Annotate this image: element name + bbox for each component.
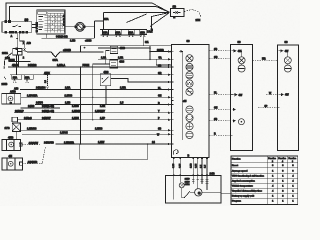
+15 tap: [171, 100, 173, 102]
wire +B3B: [42, 37, 95, 39]
wire stub 64.9: [156, 59, 171, 65]
fusible link 35A: [27, 52, 103, 57]
wire fuse4 down: [142, 35, 144, 46]
fuse F3: [128, 30, 134, 37]
connector 1B: [171, 9, 185, 17]
wire bus97: [21, 96, 172, 98]
vertical relay down: [105, 86, 107, 105]
hazard switch box 24B: [165, 176, 221, 203]
wires box30 down: [17, 33, 24, 49]
fuse bus: [100, 28, 147, 30]
wire bus67: [8, 66, 172, 68]
fuse F2: [115, 30, 121, 37]
fuse F4: [140, 30, 147, 37]
wire box30 to grid: [32, 25, 37, 28]
wire switch right: [84, 12, 169, 38]
dashed drop 1.5: [47, 75, 49, 87]
small box L3: [12, 117, 18, 121]
wire diagonal to bus: [127, 14, 147, 23]
indicator lamps group1: [186, 55, 193, 96]
fuse F1: [103, 30, 109, 37]
wire bus104: [35, 104, 172, 106]
inner feed wire: [182, 51, 184, 140]
bus mid labels: [36, 64, 126, 144]
fuse rail bottom: [101, 34, 142, 36]
lamp box LB2: [2, 139, 22, 150]
fork pins under fuses: [13, 79, 29, 82]
switch X: [23, 48, 27, 52]
wire y61: [9, 61, 31, 63]
fuse box L1: [12, 75, 22, 80]
wire dashed to 2M: [184, 10, 201, 18]
wire bus52: [150, 51, 172, 53]
wire bus112: [14, 112, 172, 114]
wire bus74: [10, 74, 172, 76]
wires below lamp unit: [173, 158, 208, 176]
wire bus59: [98, 58, 171, 60]
indicator lamps group2: [186, 106, 193, 138]
relay micro box R1: [110, 46, 118, 53]
dashed stub A to B mid: [258, 107, 277, 109]
pin ticks on lamp unit left edge: [171, 51, 173, 144]
bus end pin marks: [168, 51, 171, 146]
wire bus106: [21, 107, 60, 109]
wire battery down: [16, 55, 18, 75]
wire fan down: [150, 13, 170, 30]
bus wire labels near box: [157, 65, 162, 136]
wire to table: [221, 192, 231, 194]
wire +B bus: [81, 46, 172, 60]
wire dashed ARW: [22, 145, 45, 164]
lamp box LB3: [2, 158, 23, 170]
wire bus119: [18, 119, 172, 121]
function table: [231, 156, 298, 205]
wire R1R2 left link: [93, 51, 110, 65]
ignition switch: [75, 22, 85, 31]
wire bus130: [20, 129, 171, 131]
connector box 30: [2, 21, 32, 34]
wire bus134: [22, 133, 172, 135]
vertical bus x92: [92, 64, 94, 120]
front lamp unit A: [230, 44, 252, 150]
wire top outer: [6, 3, 170, 22]
battery 200A: [13, 48, 22, 55]
fuse box L2: [24, 75, 33, 80]
lamp box LB1: [2, 94, 21, 105]
dashed stub B bottom: [266, 94, 277, 96]
wire top inner: [10, 7, 170, 22]
relay micro box R2: [110, 60, 118, 68]
hook switch inside box bottom: [173, 150, 178, 155]
wire battery to ground: [4, 53, 12, 68]
wire dashed ABWS: [22, 163, 41, 165]
wire bus144: [56, 143, 172, 145]
relay K1: [100, 74, 111, 86]
X box 17B: [12, 123, 20, 131]
wire grid to switch: [65, 26, 76, 28]
wire loop under 144: [80, 144, 148, 159]
vertical bus x80: [80, 67, 82, 144]
wire relay out: [111, 79, 171, 82]
front lamp unit B: [277, 45, 298, 151]
wire bus89: [20, 89, 172, 91]
dashed stub A to B top: [253, 59, 278, 61]
dashed stubs to front lamp A: [209, 51, 230, 136]
ignition table: [36, 10, 65, 34]
lamp unit tall box: [172, 44, 210, 157]
